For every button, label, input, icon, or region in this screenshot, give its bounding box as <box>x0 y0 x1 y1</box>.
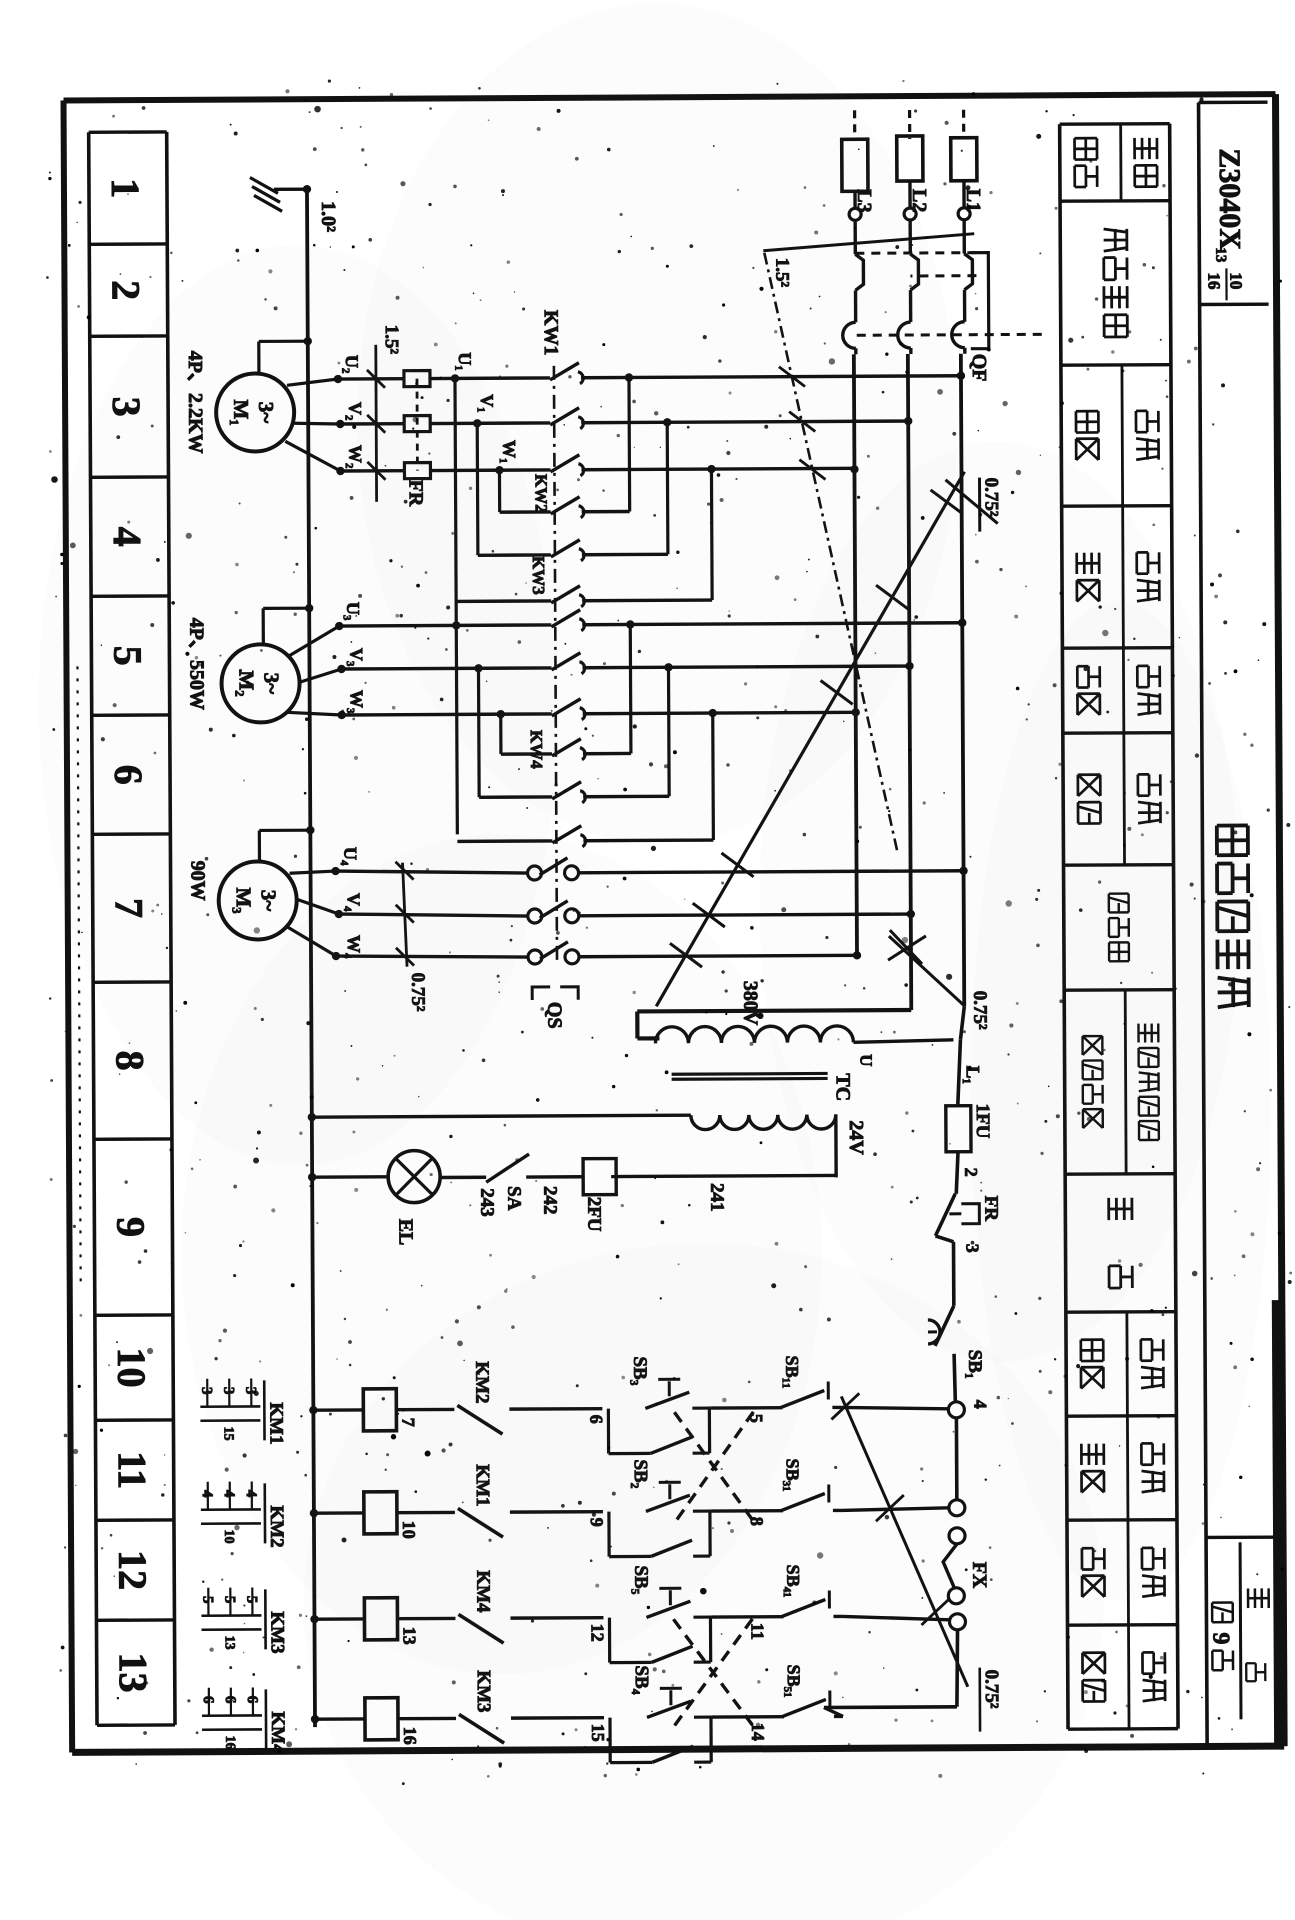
label 2FU <box>583 1197 604 1232</box>
label KW3 <box>529 556 548 595</box>
contactor coil KM2 <box>310 1491 455 1534</box>
lighting circuit wire 241 <box>616 1114 836 1178</box>
thermal relay FR heater elements <box>404 371 431 479</box>
label SB1 <box>964 1350 985 1379</box>
bus junction node at ground <box>303 185 311 193</box>
label L1 control <box>962 1066 983 1084</box>
reversing contactor KW4 pole 2 wire <box>479 795 669 799</box>
wire number 11 <box>747 1623 767 1640</box>
function table cell zhuzhou-zhengzhuan <box>1076 365 1159 506</box>
interlock contact SB&#8321;&#8321; <box>710 1355 841 1408</box>
contact KW4 pole 1 <box>552 739 585 760</box>
connector FX circle 2 <box>949 1500 965 1516</box>
supply terminal L1 lead-in <box>951 110 978 208</box>
supply terminal L2 lead-in <box>897 110 924 208</box>
auxiliary contact table KM2 <box>199 1481 287 1548</box>
function table cell zhuzhou-zhengzhuan2 <box>1081 1312 1164 1416</box>
label 1FU <box>972 1104 993 1139</box>
motor M1 phase wire V <box>340 421 908 424</box>
motor M1 leads to terminals <box>285 375 345 476</box>
cross link U3 top (M2) <box>626 620 635 753</box>
svg-text:13: 13 <box>222 1636 237 1650</box>
svg-text:10: 10 <box>1226 272 1245 289</box>
label KW2 <box>531 474 550 513</box>
motor M1 phase wire W <box>340 468 854 471</box>
contactor coil KM4 <box>311 1697 456 1740</box>
motor M3 <box>218 861 296 939</box>
svg-text:13: 13 <box>111 1652 156 1692</box>
motor M3 leads to terminals <box>288 867 344 961</box>
motor M2 rating label <box>185 618 207 710</box>
function table cell yonghu-dianyuan <box>1074 124 1157 201</box>
switch SA <box>440 1154 529 1182</box>
svg-text:13: 13 <box>1212 247 1228 262</box>
motor M3 phase wire 3 <box>336 953 857 958</box>
svg-text:1.0²: 1.0² <box>317 201 339 232</box>
contact KW2 pole 1 <box>551 497 584 518</box>
contact KW4 pole 2 <box>552 782 585 803</box>
svg-text:10: 10 <box>109 1347 154 1387</box>
terminal labels U3 V3 W3 <box>343 602 367 714</box>
transformer core <box>672 1073 828 1079</box>
cross link V3 bottom (M2) <box>474 664 483 797</box>
start button SB&#8322; rung 2 <box>609 1459 712 1557</box>
motor cable gauge mark 1.5sq at M1 <box>367 325 403 502</box>
start button SB&#8323; rung 1 <box>608 1356 711 1454</box>
terminal labels U2 V2 W2 <box>342 355 366 469</box>
switch QS pole 3 <box>528 942 579 964</box>
rung 2 riser to FX <box>842 1508 949 1511</box>
contact KW2 pole 3 <box>551 586 584 607</box>
contact linkage dash-dot line <box>554 366 557 962</box>
function table cell hengbi-xiajiang <box>1078 733 1161 865</box>
label 243 <box>476 1188 497 1217</box>
cross link W3 bottom (M2) <box>497 710 506 754</box>
motor M1 frame ground tap <box>259 337 312 373</box>
wire number 6 <box>586 1415 606 1424</box>
svg-text:KM3: KM3 <box>266 1611 287 1653</box>
label SA <box>503 1186 524 1211</box>
label L1 <box>962 189 984 212</box>
coil wire number 10 <box>399 1521 419 1539</box>
wire number 14 <box>748 1723 768 1741</box>
thermal relay FR NC contact <box>935 1194 979 1236</box>
label TC U <box>832 1054 876 1101</box>
lamp EL <box>308 1150 440 1203</box>
interlock cross dashed links rungs 1-2 <box>674 1412 754 1522</box>
contact KW3 pole 3 <box>552 699 585 720</box>
label L3 <box>853 189 875 212</box>
svg-text:L1: L1 <box>962 189 984 212</box>
contactor coil KM3 <box>310 1597 455 1640</box>
node label U1 <box>455 352 475 371</box>
coil wire number 7 <box>398 1418 418 1427</box>
bus gauge label 1.0sq <box>317 201 339 232</box>
interlock contact SB&#8324;&#8321; <box>711 1564 842 1617</box>
phase rail L3 wire <box>854 354 857 957</box>
self-hold contact KM1 in rung 2 <box>458 1464 603 1538</box>
svg-text:16: 16 <box>222 1736 237 1750</box>
function table frame <box>1060 124 1178 1730</box>
svg-text:2: 2 <box>103 280 148 300</box>
motor M3 frame ground tap <box>259 826 314 861</box>
auxiliary contact table KM1 <box>198 1378 286 1445</box>
terminal labels U4 V4 W4 <box>340 847 364 959</box>
M3 cable gauge mark 0.75sq <box>395 862 428 1012</box>
transformer TC secondary winding 24V <box>691 1114 836 1129</box>
label FR contact <box>980 1196 1001 1222</box>
reversing contactor KW2 pole 3 wire <box>456 600 712 601</box>
svg-text:9: 9 <box>1208 1632 1234 1644</box>
wire number 9 <box>587 1518 607 1527</box>
label 380V <box>739 981 761 1026</box>
motor M3 phase wire 1 <box>336 868 964 874</box>
supply terminal L3 lead-in <box>842 110 869 208</box>
connector FX circle 1 <box>948 1402 964 1418</box>
cross link U1 bottom long link <box>451 374 462 834</box>
motor M2 leads to terminals <box>286 622 346 720</box>
incoming cable gauge mark 1.5sq <box>763 234 974 288</box>
wire number 12 <box>587 1624 607 1642</box>
wire number 5 <box>746 1414 766 1423</box>
cable gauge diagonal 0.75sq from QF to transformer <box>653 472 1004 1007</box>
function table cell zhuzhou-fanzhuan2 <box>1081 1416 1164 1520</box>
stop button SB1 <box>928 1306 956 1402</box>
cross link W1 bottom (M1) <box>495 466 504 512</box>
control wire c3-c4 jog <box>943 1544 957 1588</box>
motor M2 phase wire W3 <box>342 712 856 715</box>
rung 1 riser to FX <box>841 1407 948 1410</box>
transformer primary top connection to L1 control feed <box>853 1040 953 1043</box>
function table cell hengbi-xiajiang2 <box>1082 1625 1165 1729</box>
contactor coil KM1 <box>309 1388 454 1431</box>
wire 242 <box>526 1175 583 1179</box>
title text dian-qi-yuan-li-tu (electrical schematic) <box>1217 825 1249 1007</box>
self-hold contact KM2 in rung 1 <box>457 1361 602 1435</box>
contact KW2 pole 2 <box>551 540 584 561</box>
circuit breaker QF <box>842 219 1042 354</box>
switch QS pole 1 <box>527 858 578 880</box>
wire number 15 <box>588 1724 608 1742</box>
cross link W3 top (M2) <box>709 709 718 840</box>
label wire 2 <box>961 1168 981 1177</box>
control top wire to riser of rung 4 <box>824 1630 958 1708</box>
PE return bus wire <box>307 189 315 1727</box>
svg-text:11: 11 <box>110 1451 155 1489</box>
wire 2 <box>956 1152 958 1194</box>
svg-text:10: 10 <box>221 1530 236 1544</box>
ground symbol <box>250 177 307 211</box>
function table cell kongqi-kaiguan <box>1104 229 1128 337</box>
label QF <box>968 354 990 382</box>
title strip separator line <box>1199 103 1208 1747</box>
label 241 <box>706 1183 727 1212</box>
interlock contact SB&#8325;&#8321; <box>712 1664 843 1717</box>
transformer primary feed from rail L2 <box>637 1010 911 1038</box>
connector FX circle 5 <box>949 1614 965 1630</box>
contact KW3 pole 1 <box>551 610 584 631</box>
switch QS pole 2 <box>528 901 579 923</box>
switch QS bracket and label <box>532 987 578 1029</box>
node label V1 <box>477 394 497 413</box>
contact KW3 pole 2 <box>551 653 584 674</box>
start button SB&#8325; rung 3 <box>609 1565 712 1663</box>
rung 3 riser to FX <box>842 1616 949 1621</box>
control feed wire L1 extension <box>957 1007 965 1106</box>
motor M3 rating label <box>186 861 208 901</box>
motor M2 phase wire V3 <box>341 666 909 669</box>
auxiliary contact table KM4 <box>200 1687 288 1754</box>
label wire 4 <box>970 1400 990 1409</box>
label wire 3 <box>963 1244 983 1253</box>
reversing contactor KW4 pole 1 wire <box>501 752 631 756</box>
transformer TC primary winding <box>655 1026 853 1044</box>
function table cell hengbi-shangsheng2 <box>1082 1520 1165 1625</box>
connector FX circle 4 <box>948 1588 964 1604</box>
contactor contact KW1 pole 2 <box>550 408 583 429</box>
node label W1 <box>499 440 519 464</box>
cross link U1 top (M1) <box>625 373 634 511</box>
phase rail L1 wire <box>961 354 964 1007</box>
scan dotted line near bottom border <box>77 666 80 1286</box>
phase rail L2 wire <box>908 354 911 1010</box>
start button SB&#8324; rung 4 <box>610 1665 713 1763</box>
wire number 8 <box>747 1517 767 1526</box>
self-hold contact KM4 in rung 3 <box>458 1570 603 1644</box>
svg-text:1: 1 <box>103 178 148 198</box>
reversing contactor KW2 pole 2 wire <box>478 553 668 557</box>
connector FX circle 3 <box>949 1528 965 1544</box>
label FX <box>968 1562 990 1589</box>
svg-text:12: 12 <box>110 1550 155 1590</box>
svg-text:QF: QF <box>968 354 990 382</box>
motor M1 rating label <box>184 351 207 454</box>
terminal circle L3 <box>849 208 861 220</box>
svg-text:9: 9 <box>108 1217 153 1237</box>
label KW1 <box>540 310 562 356</box>
label L2 <box>908 189 930 212</box>
function table cell zhuzhou-fanzhuan <box>1076 506 1159 648</box>
interlock cross dashed links rungs 3-4 <box>673 1619 753 1726</box>
label 24V <box>845 1120 867 1155</box>
cable gauge diagonal dash-dot <box>764 252 897 853</box>
label KW4 <box>527 730 546 769</box>
function table cell zongting <box>1109 1198 1133 1288</box>
rail junction nodes <box>850 372 968 960</box>
interlock contact SB&#8323;&#8321; <box>711 1458 842 1511</box>
fuse 2FU <box>583 1159 616 1195</box>
motor M2 <box>221 644 299 722</box>
function table cell hengbi-shangsheng <box>1077 648 1160 733</box>
cross link V1 bottom (M1) <box>473 419 482 555</box>
cross link V1 top (M1) <box>663 418 672 554</box>
cross link W1 top (M1) <box>707 465 716 600</box>
rung 4 riser link <box>824 1707 843 1716</box>
control gauge diagonal 0.75sq <box>831 1393 1002 1733</box>
contactor contact KW1 pole 3 <box>550 455 583 476</box>
motor M1 phase wire U (QF L1 to terminal U2) <box>338 376 961 379</box>
label FR <box>404 480 426 507</box>
fuse 1FU <box>946 1106 971 1152</box>
svg-text:KM4: KM4 <box>267 1711 288 1754</box>
wire 3 segment <box>935 1236 953 1306</box>
title block Z3040X drawing number box <box>1199 102 1269 304</box>
motor M2 frame ground tap <box>263 604 313 644</box>
contactor contact KW1 pole 1 <box>550 363 583 384</box>
motor M3 phase wire 2 <box>339 911 911 917</box>
coil wire number 13 <box>400 1627 420 1645</box>
gauge mark 0.75sq near transformer feed <box>888 930 991 1031</box>
secondary return wire to bus <box>308 1111 691 1121</box>
terminal circle L2 <box>904 208 916 220</box>
label EL <box>394 1219 416 1246</box>
function table cell lengquebeng <box>1109 894 1129 962</box>
coil wire number 16 <box>400 1727 420 1745</box>
title page box gong-ye di-9-ye (sheet 9) <box>1206 1537 1280 1719</box>
terminal circle L1 <box>958 208 970 220</box>
svg-text:Z3040X: Z3040X <box>1213 148 1247 250</box>
motor M1 <box>216 373 294 451</box>
motor M2 phase wire U3 <box>339 623 962 626</box>
label 242 <box>539 1186 560 1215</box>
reversing contactor KW2 pole 1 wire <box>500 510 630 514</box>
cross link V3 top (M2) <box>664 663 673 796</box>
control top wire segment c1-c2 <box>955 1418 959 1500</box>
column number strip 1-13 <box>89 132 175 1725</box>
contact KW4 pole 3 <box>552 826 585 847</box>
svg-text:16: 16 <box>1204 272 1223 289</box>
function table cell bianyaqi-baohu <box>1082 990 1159 1174</box>
reversing contactor KW4 pole 3 wire <box>457 840 713 841</box>
auxiliary contact table KM3 <box>199 1587 287 1654</box>
self-hold contact KM3 in rung 4 <box>459 1670 604 1744</box>
